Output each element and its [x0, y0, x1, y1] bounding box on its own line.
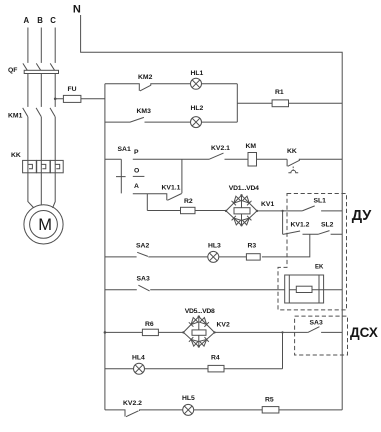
- resistor R2: [147, 207, 226, 213]
- svg-text:SA2: SA2: [136, 243, 149, 250]
- heater EK: [285, 275, 343, 303]
- lamp HL2: [191, 117, 202, 128]
- relay coil KM: [246, 143, 257, 166]
- svg-text:FU: FU: [68, 86, 77, 93]
- svg-text:R2: R2: [184, 198, 193, 205]
- thermal contact KK: [287, 159, 342, 172]
- contact SL2: [318, 231, 342, 235]
- svg-text:KK: KK: [11, 152, 21, 159]
- svg-text:SL1: SL1: [314, 198, 327, 205]
- svg-text:B: B: [37, 16, 43, 25]
- wire phase C mid: [54, 74, 56, 107]
- svg-text:A: A: [134, 183, 139, 190]
- fuse FU: [55, 95, 105, 102]
- svg-text:HL3: HL3: [208, 243, 221, 250]
- thermal relay KK element A: [23, 160, 37, 172]
- wire bridge2 to SA3: [215, 331, 308, 333]
- wire phase A top: [27, 28, 29, 63]
- resistor R4: [145, 365, 283, 372]
- switch SA3: [105, 285, 285, 291]
- svg-text:KM3: KM3: [137, 108, 152, 115]
- thermal relay KK element C: [50, 160, 63, 172]
- node O label and stub: [133, 168, 145, 177]
- wire phase B lower: [40, 117, 42, 161]
- svg-text:R1: R1: [275, 89, 284, 96]
- wire neutral bus: [81, 15, 343, 410]
- svg-text:SL2: SL2: [321, 222, 334, 229]
- svg-text:QF: QF: [8, 67, 17, 74]
- wire KM to KK: [257, 158, 288, 160]
- svg-text:VD1...VD4: VD1...VD4: [229, 185, 259, 192]
- svg-text:SA1: SA1: [118, 146, 131, 153]
- thermal relay KK element B: [37, 160, 50, 172]
- junction dot SL1 row: [282, 210, 284, 212]
- svg-text:R4: R4: [211, 355, 220, 362]
- switch SA2: [105, 252, 208, 257]
- resistor R5: [194, 407, 343, 413]
- svg-text:SA3: SA3: [310, 320, 323, 327]
- svg-text:VD5...VD8: VD5...VD8: [185, 308, 215, 315]
- contact KV2.2: [105, 410, 183, 417]
- svg-text:KV2.1: KV2.1: [211, 145, 230, 152]
- svg-text:R5: R5: [265, 397, 274, 404]
- svg-text:SA3: SA3: [137, 276, 150, 283]
- contact KV1.2: [283, 231, 318, 234]
- wire phase C top: [54, 28, 56, 63]
- lamp HL5: [183, 404, 194, 415]
- wire HL2 to bracket: [202, 121, 238, 123]
- contactor KM1 pole C: [50, 108, 55, 117]
- breaker QF pole B: [36, 63, 40, 70]
- wire HL1 to bracket: [202, 83, 238, 85]
- wire left control bus: [104, 84, 106, 410]
- wire KK to motor B: [40, 173, 42, 205]
- junction dot R6 row on bus: [104, 331, 107, 334]
- junction dot SA3 row: [281, 331, 283, 333]
- resistor R3: [219, 254, 260, 260]
- lamp HL1: [191, 78, 202, 89]
- breaker QF pole C: [50, 63, 54, 70]
- junction fuse tap on phase C: [54, 98, 57, 101]
- wire KK to motor C: [53, 173, 56, 208]
- breaker QF pole A: [23, 63, 27, 70]
- diode bridge VD5...VD8: [182, 315, 216, 347]
- svg-text:ДСХ: ДСХ: [350, 325, 378, 340]
- svg-text:KV1: KV1: [261, 201, 274, 208]
- wire phase B top: [40, 28, 42, 63]
- dashed box DU with EK notch: [278, 194, 347, 310]
- wire P row: [133, 158, 209, 160]
- selector switch SA1: [105, 159, 126, 193]
- wire bridge1 to SL1: [257, 210, 302, 212]
- contact KV1.1: [133, 159, 182, 200]
- lamp HL3: [208, 251, 219, 262]
- svg-text:N: N: [73, 4, 81, 16]
- svg-text:KV1.1: KV1.1: [162, 185, 181, 192]
- contactor KM1 pole A: [23, 108, 28, 117]
- wire KK to motor A: [28, 173, 34, 208]
- svg-text:EK: EK: [315, 265, 324, 271]
- contactor KM1 pole B: [36, 108, 41, 117]
- svg-text:M: M: [38, 216, 52, 234]
- wire phase A mid: [27, 74, 29, 107]
- svg-text:C: C: [50, 16, 56, 25]
- motor M: [24, 205, 63, 244]
- svg-text:KM1: KM1: [8, 113, 23, 120]
- contact KM2: [105, 84, 191, 91]
- dashed box DSKh: [295, 316, 348, 355]
- svg-text:HL4: HL4: [132, 355, 145, 362]
- wire drop to KV1.2 row: [282, 211, 284, 234]
- svg-text:KK: KK: [287, 148, 297, 155]
- svg-text:HL2: HL2: [191, 105, 204, 112]
- wire phase C lower: [54, 117, 56, 161]
- resistor R1: [237, 100, 342, 107]
- svg-text:KM2: KM2: [138, 74, 153, 81]
- contact SL1: [302, 206, 342, 211]
- svg-text:R6: R6: [145, 321, 154, 328]
- lamp HL4: [105, 363, 145, 374]
- svg-text:KV2.2: KV2.2: [123, 400, 142, 407]
- breaker QF linkage bar: [24, 70, 58, 73]
- svg-text:P: P: [134, 149, 139, 156]
- diode bridge VD1...VD4: [225, 194, 258, 226]
- wire SA3 row drop to R4 row: [282, 332, 284, 368]
- wire phase A lower: [27, 117, 29, 161]
- svg-text:A: A: [24, 16, 30, 25]
- svg-text:R3: R3: [248, 243, 257, 250]
- svg-text:KV2: KV2: [217, 322, 230, 329]
- wire phase B mid: [40, 74, 42, 107]
- svg-text:KV1.2: KV1.2: [291, 222, 310, 229]
- svg-text:KM: KM: [246, 143, 257, 150]
- resistor R6: [105, 329, 183, 335]
- contact KV2.1: [209, 153, 248, 159]
- svg-text:HL1: HL1: [191, 70, 204, 77]
- wire lamp bracket: [236, 84, 238, 122]
- svg-text:ДУ: ДУ: [352, 208, 373, 224]
- wire SL2 row drop to R3 row: [262, 234, 310, 257]
- svg-text:HL5: HL5: [182, 395, 195, 402]
- svg-text:O: O: [134, 168, 139, 175]
- switch SA3 (second): [308, 327, 342, 333]
- contact KM3: [105, 117, 191, 122]
- wire A row drop: [146, 194, 148, 211]
